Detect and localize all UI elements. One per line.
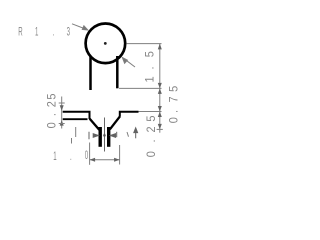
- svg-text:0: 0: [85, 149, 88, 163]
- node tick left dim bottom: [59, 123, 65, 125]
- node arrow pointing right at left lead: [89, 132, 98, 139]
- svg-text:0: 0: [45, 122, 59, 128]
- wire extension line at circle center height: [127, 43, 162, 45]
- lead left: [98, 127, 101, 147]
- wire dimension line right chain: [159, 44, 161, 133]
- svg-text:1: 1: [35, 25, 38, 39]
- value 0.25 right rotated: [144, 116, 158, 158]
- node arrow bottom dim right: [114, 158, 120, 162]
- node arrows at 88.35 junction: [158, 83, 162, 89]
- value 0.75 rotated: [167, 86, 181, 124]
- value 1.5 rotated: [143, 51, 157, 82]
- svg-text:1: 1: [53, 150, 56, 164]
- node arrow pointing left at right lead: [110, 132, 116, 138]
- node tick near left lead outer: [75, 127, 77, 137]
- svg-text:5: 5: [144, 116, 158, 122]
- wire body right side: [116, 56, 119, 88]
- node arrow bottom dim left: [90, 158, 96, 162]
- wire extension line at flange top right: [139, 111, 162, 113]
- wire left 0.25 dimension line: [61, 97, 63, 129]
- node up arrow right of leads: [134, 128, 138, 139]
- node tick left dim top: [59, 102, 65, 104]
- value 1.0 bottom text: [53, 149, 88, 164]
- svg-text:5: 5: [45, 94, 59, 100]
- wire bottom extension right: [119, 145, 121, 165]
- svg-text:0: 0: [167, 117, 181, 123]
- flange left top edge: [63, 112, 90, 119]
- svg-text:2: 2: [45, 101, 59, 107]
- svg-text:7: 7: [167, 96, 181, 102]
- node arrows at 111.5 junction: [158, 106, 162, 112]
- flange right edge: [120, 112, 139, 117]
- node tick lower left: [71, 138, 73, 144]
- svg-text:5: 5: [167, 86, 181, 92]
- node arrow top of 1.5 dim: [158, 44, 162, 50]
- svg-text:2: 2: [144, 126, 158, 132]
- svg-text:.: .: [144, 139, 158, 142]
- node tick bottom right dim: [157, 128, 163, 130]
- wire leader from R1.3 label: [72, 24, 88, 30]
- wire taper left: [90, 119, 100, 130]
- wire bottom extension left: [89, 143, 91, 165]
- value 0.25 left rotated: [45, 94, 59, 129]
- wire bottom dimension line: [90, 159, 120, 161]
- node small diagonal tick: [127, 132, 129, 137]
- svg-text:.: .: [53, 25, 55, 39]
- svg-text:3: 3: [67, 25, 70, 39]
- svg-text:.: .: [45, 113, 59, 116]
- wire taper right: [110, 116, 120, 129]
- node arrow below left flange: [60, 120, 64, 126]
- wire extension line at body bottom: [119, 87, 162, 89]
- node ticks between leads: [103, 134, 106, 137]
- value label R 1.3: [18, 25, 70, 39]
- wire leader at circle lower right: [122, 57, 135, 67]
- svg-text:5: 5: [143, 51, 157, 57]
- wire body left side: [89, 57, 92, 91]
- svg-text:R: R: [18, 25, 22, 39]
- svg-text:.: .: [70, 150, 72, 164]
- flange left bottom edge: [63, 118, 88, 120]
- lead right: [107, 127, 110, 147]
- svg-text:0: 0: [144, 151, 158, 157]
- node arrow above left flange: [60, 105, 64, 111]
- node arrow bottom of right 0.25 dim: [158, 124, 162, 129]
- node centerline between leads: [104, 118, 106, 152]
- svg-text:1: 1: [143, 76, 157, 82]
- svg-text:.: .: [143, 66, 157, 69]
- node center dot: [104, 42, 107, 45]
- svg-text:.: .: [167, 110, 181, 113]
- bead body circle: [86, 24, 126, 64]
